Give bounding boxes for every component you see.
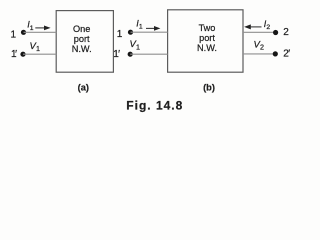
label One port N.W. [72,24,92,54]
node 1' terminal dot (two-port) [128,52,133,57]
wire: box b to terminal 2 [243,31,276,33]
label Two port N.W. [197,23,217,53]
node 1 terminal dot (two-port) [128,30,133,35]
svg-text:1: 1 [117,29,123,40]
svg-text:N.W.: N.W. [197,43,217,53]
svg-text:port: port [74,34,90,44]
node 1' terminal dot [20,52,25,57]
wire: terminal 1 to box b [131,31,168,33]
svg-text:(b): (b) [203,83,215,93]
node 2 terminal dot [273,30,278,35]
svg-text:2: 2 [283,27,289,38]
wire: terminal 1 to box a [24,31,57,33]
svg-text:N.W.: N.W. [72,44,92,54]
node 2' terminal dot [273,51,278,56]
two-port network box U_b [168,10,243,72]
svg-text:V1: V1 [30,41,41,53]
svg-text:(a): (a) [78,83,89,93]
svg-text:I2: I2 [264,19,271,31]
svg-text:Two: Two [199,23,216,33]
svg-text:1: 1 [10,30,16,41]
wire: terminal 1' to box b [130,53,167,55]
svg-text:I1: I1 [136,18,143,30]
svg-text:One: One [73,24,90,34]
node 1 terminal dot [21,30,26,35]
svg-text:port: port [199,33,215,43]
svg-text:2′: 2′ [283,48,290,59]
svg-text:I1: I1 [27,20,34,32]
svg-text:Fig. 14.8: Fig. 14.8 [126,99,183,113]
svg-text:V1: V1 [130,39,141,51]
arrow I2 into box b (pointing left) [244,24,261,29]
svg-text:1′: 1′ [113,49,120,60]
svg-text:V2: V2 [254,39,265,51]
one-port network box U_a [56,11,113,73]
svg-text:1′: 1′ [11,49,17,60]
wire: box b to terminal 2' [243,53,275,55]
arrow I1 into box b [146,26,160,31]
wire: terminal 1' to box a [23,53,56,55]
arrow I1 into box a [35,26,50,31]
